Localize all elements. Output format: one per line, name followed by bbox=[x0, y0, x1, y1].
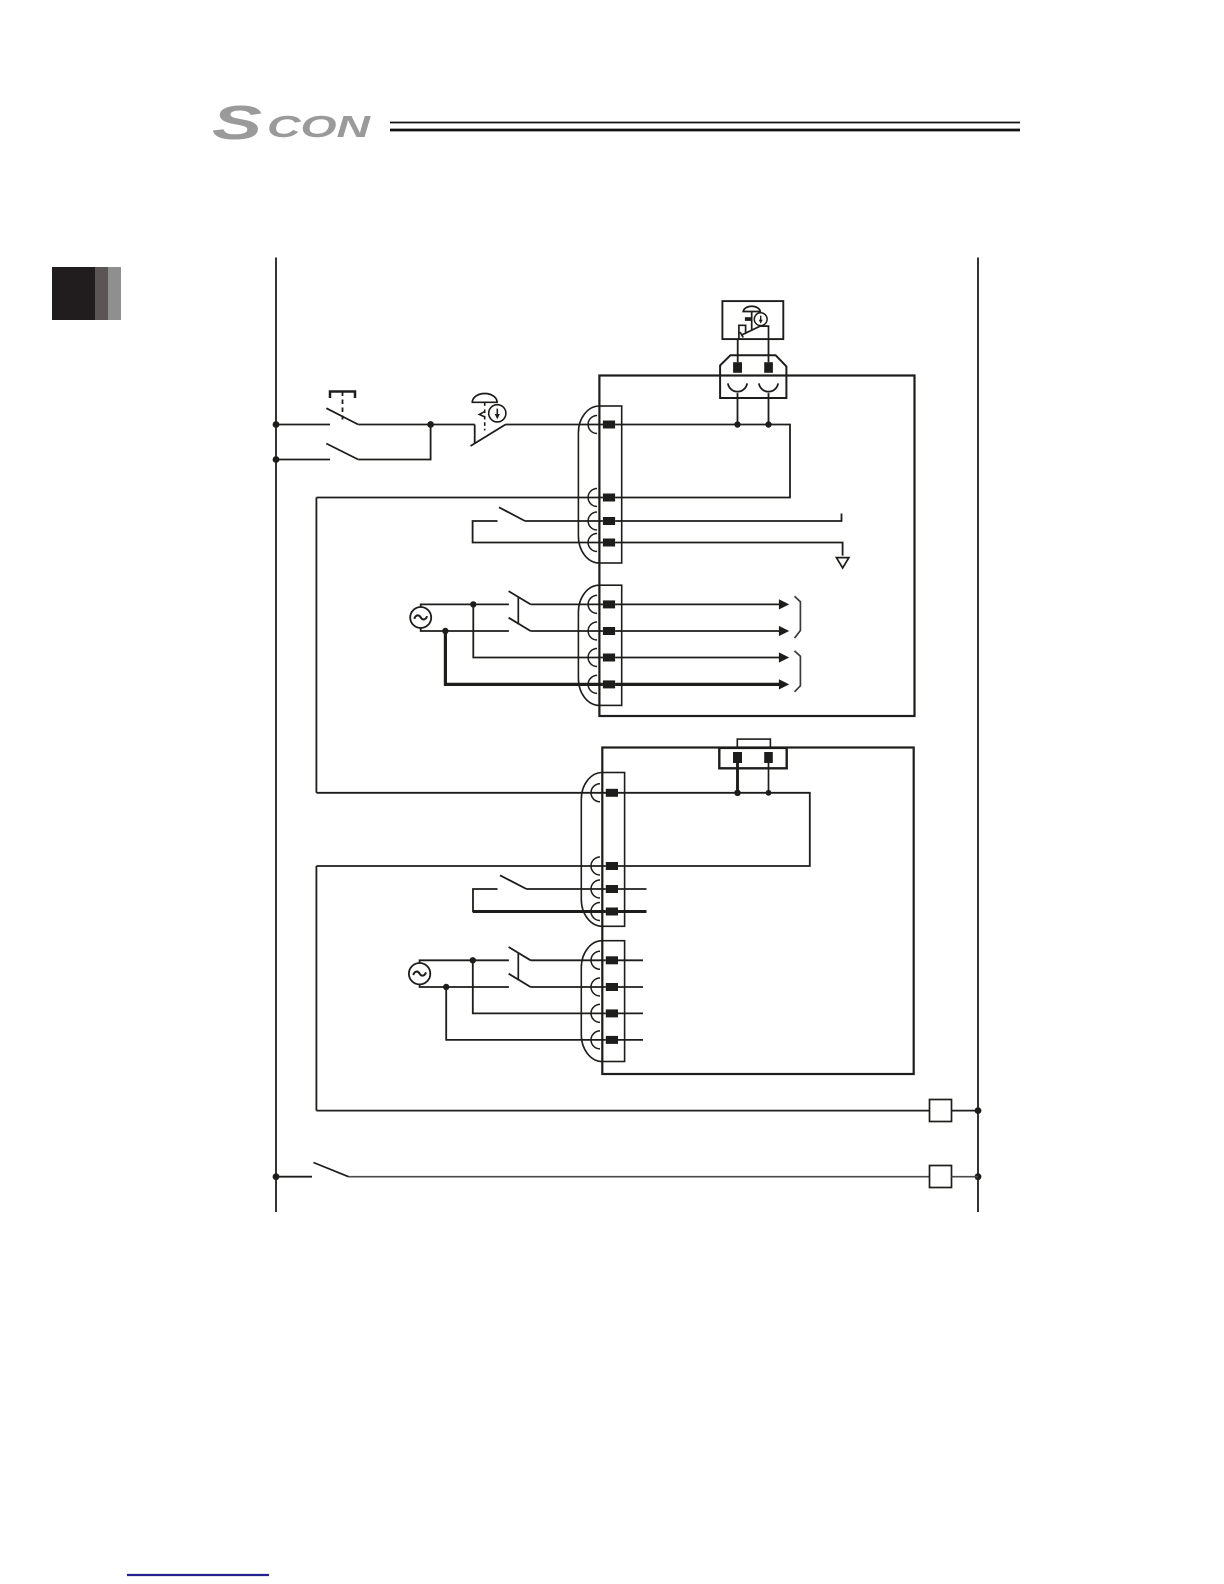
wire switch2 pole1 to J4 pin1 bbox=[531, 959, 606, 961]
connector J1 pin2 bbox=[603, 494, 615, 502]
wire bottom switch to relay coil 2 bbox=[349, 1176, 930, 1178]
svg-text:S: S bbox=[212, 97, 262, 150]
EMG jumper plug loop bbox=[737, 739, 770, 748]
wire J3 pin3 stub bbox=[618, 888, 647, 890]
motor cutoff switch 2 blade bbox=[500, 875, 527, 889]
wire J4 pin4 stub bbox=[618, 1039, 643, 1041]
connector J1 notch pin4 bbox=[588, 534, 597, 552]
supply rail left bbox=[275, 258, 277, 1213]
motor cutoff switch blade bbox=[499, 507, 525, 521]
brake release contact blade bbox=[471, 425, 506, 447]
wire J2 pin3 to encoder arrow bbox=[615, 657, 779, 659]
brake icon right terminal bbox=[760, 326, 768, 339]
wire relay coil 1 to right rail bbox=[952, 1110, 979, 1112]
EMG contact 1 blade bbox=[326, 408, 358, 424]
connector J2 pin2 bbox=[603, 627, 615, 635]
wire AC2 L branch to J4 pin3 bbox=[473, 960, 606, 1013]
EMG connector pin right bbox=[764, 752, 773, 763]
wire brake release switch to connector J1 pin1 bbox=[506, 424, 604, 426]
wire switch pole2 to J2 pin2 bbox=[531, 630, 603, 632]
wire AC2 N to switch bbox=[420, 984, 509, 987]
svg-text:CON: CON bbox=[267, 109, 371, 144]
wire J2 pin2 to motor arrow bbox=[615, 630, 779, 632]
junction EMG left bbox=[734, 790, 741, 797]
wire EMG pin left down bold bbox=[736, 763, 739, 793]
chapter tab black bbox=[52, 267, 95, 320]
power switch pole2 blade bbox=[509, 618, 531, 631]
brake release switch button dome bbox=[472, 394, 497, 403]
brace motor pair bbox=[795, 596, 801, 638]
EMG connector housing bbox=[719, 748, 786, 768]
power switch 2 pole2 blade bbox=[509, 974, 531, 987]
connector J2 notch pin2 bbox=[588, 622, 597, 640]
wire EMG contact 2 to riser bbox=[358, 425, 430, 460]
EMG connector pin left bbox=[733, 752, 742, 763]
power switch 2 pole1 blade bbox=[509, 947, 531, 960]
connector J4 notch pin3 bbox=[591, 1004, 600, 1022]
brake icon button dome bbox=[743, 306, 760, 311]
power switch pole1 blade bbox=[509, 591, 531, 604]
connector J4 pin4 bbox=[606, 1036, 618, 1044]
relay coil 2 bbox=[930, 1166, 952, 1188]
controller 2 enclosure bbox=[602, 748, 913, 1075]
wire J2 pin4 to encoder arrow bold bbox=[615, 683, 779, 686]
connector J1 notch pin1 bbox=[588, 416, 597, 434]
footer rule blue bbox=[127, 1574, 269, 1576]
wire cutoff blade to J1 pin3 bbox=[525, 520, 603, 522]
AC source 1 circle bbox=[410, 607, 431, 628]
connector J4 pin1 bbox=[606, 956, 618, 964]
brake plug socket cup left bbox=[728, 383, 747, 391]
junction left rail bottom bbox=[273, 1173, 280, 1180]
EMG contact 2 blade bbox=[326, 444, 358, 460]
arrow encoder B bbox=[779, 679, 789, 689]
wire AC1 L branch to J2 pin3 bbox=[473, 604, 603, 657]
wire brake box to plug pin right bbox=[768, 339, 770, 362]
wire switch2 pole2 to J4 pin2 bbox=[531, 986, 606, 988]
controller 1 enclosure bbox=[599, 376, 914, 717]
connector J4 shell bbox=[581, 941, 602, 1062]
emergency stop actuator dashed link bbox=[342, 392, 344, 420]
brake release contact stub bbox=[474, 425, 476, 445]
connector J1 pin1 bbox=[603, 421, 615, 429]
junction AC1 N branch bbox=[442, 628, 448, 634]
arrow motor U bbox=[779, 599, 789, 609]
wire J3 pin4 stub bold bbox=[618, 910, 647, 913]
brake release switch dashed stem bbox=[484, 402, 486, 430]
wire J1 pin4 to ground bbox=[615, 543, 843, 556]
arrow encoder A bbox=[779, 652, 789, 662]
brake icon black pad bbox=[745, 317, 751, 321]
connector J1 shell bbox=[578, 406, 599, 563]
wire J4 pin1 stub bbox=[618, 959, 643, 961]
connector J3 pin2 bbox=[606, 862, 618, 870]
wire AC2 L to switch bbox=[420, 960, 509, 963]
wire cutoff 2 blade to J3 pin3 bbox=[527, 888, 606, 890]
wire bypass to relay coil 1 bbox=[316, 1110, 929, 1112]
arrow motor V bbox=[779, 626, 789, 636]
wire bypass to J3 pin1 and loop to pin2 bbox=[316, 793, 809, 866]
wire AC1 N to switch bbox=[421, 628, 509, 631]
connector J4 pin2 bbox=[606, 983, 618, 991]
connector J3 pin4 bbox=[606, 908, 618, 916]
wire J1 pin3 open terminal bbox=[615, 514, 841, 522]
wire EMG pin right down bbox=[768, 763, 770, 793]
frame ground symbol bbox=[836, 558, 849, 568]
wire plug right to EMG wire bbox=[768, 393, 770, 424]
connector J1 notch pin3 bbox=[588, 512, 597, 530]
connector J2 pin3 bbox=[603, 654, 615, 662]
wire J1 pin2 to left bypass bbox=[316, 497, 603, 499]
brake icon blade tick bbox=[740, 332, 743, 338]
wire J3 pin4 left bold bbox=[473, 910, 606, 913]
connector J4 notch pin4 bbox=[591, 1031, 600, 1049]
connector J3 notch pin3 bbox=[591, 880, 600, 898]
connector J2 notch pin1 bbox=[588, 595, 597, 613]
motor brake unit box bbox=[722, 301, 783, 339]
junction left rail upper bbox=[273, 421, 280, 428]
junction AC2 N branch bbox=[443, 984, 449, 990]
wire switch pole1 to J2 pin1 bbox=[531, 603, 603, 605]
connector J1 notch pin2 bbox=[588, 489, 597, 507]
connector J3 shell bbox=[581, 773, 602, 927]
wire AC1 N branch to J2 pin4 bold bbox=[445, 631, 603, 684]
brake plug socket cup right bbox=[759, 383, 778, 391]
wire AC1 L to switch bbox=[421, 604, 509, 607]
connector J1 pin3 bbox=[603, 517, 615, 525]
brake release switch chevron bbox=[479, 412, 484, 417]
connector J3 notch pin2 bbox=[591, 857, 600, 875]
chapter tab light gray bbox=[108, 267, 121, 320]
power switch 2 link bar bbox=[517, 953, 519, 980]
connector J2 pin1 bbox=[603, 600, 615, 608]
brake release timer circle bbox=[489, 405, 506, 422]
AC source 2 tilde bbox=[413, 972, 426, 976]
brace encoder pair bbox=[795, 651, 801, 692]
connector J2 notch pin4 bbox=[588, 675, 597, 693]
wire rail to EMG contact 1 bbox=[276, 424, 330, 426]
header rule thick bbox=[390, 129, 1020, 132]
bottom switch blade bbox=[314, 1163, 349, 1177]
junction node A bbox=[427, 421, 434, 428]
connector J4 notch pin2 bbox=[591, 978, 600, 996]
motor cutoff switch loop bbox=[473, 521, 603, 543]
junction plug right bbox=[765, 421, 771, 427]
junction left rail lower bbox=[273, 456, 280, 463]
AC source 1 tilde bbox=[414, 615, 427, 619]
brake icon contact blade bbox=[741, 326, 760, 335]
junction EMG right bbox=[766, 790, 772, 796]
motor cutoff switch 2 loop bbox=[473, 889, 606, 912]
brake icon stem bbox=[751, 312, 753, 330]
junction AC2 L branch bbox=[470, 957, 476, 963]
junction right rail relay2 bbox=[975, 1173, 982, 1180]
wire J4 pin3 stub bbox=[618, 1012, 643, 1014]
connector J2 notch pin3 bbox=[588, 649, 597, 667]
left bypass riser lower bbox=[315, 866, 317, 1111]
junction AC1 L branch bbox=[470, 601, 476, 607]
emergency stop actuator T-bar bbox=[330, 392, 355, 399]
connector J4 notch pin1 bbox=[591, 951, 600, 969]
brake plug pin left bbox=[733, 362, 742, 373]
header rule thin bbox=[390, 122, 1020, 124]
brake icon timer circle bbox=[754, 313, 767, 326]
wire node A to brake release switch bbox=[431, 424, 475, 426]
connector J2 pin4 bbox=[603, 680, 615, 688]
junction plug left bbox=[734, 421, 740, 427]
chapter tab dark gray bbox=[95, 267, 108, 320]
wire J3 pin2 to left bypass bbox=[316, 865, 605, 867]
wire rail to EMG contact 2 bbox=[276, 459, 330, 461]
brake release timer down arrow bbox=[496, 409, 498, 415]
wire J4 pin2 stub bbox=[618, 986, 643, 988]
wire brake box to plug pin left bbox=[737, 339, 739, 362]
wire J2 pin1 to motor arrow bbox=[615, 603, 779, 605]
wire relay coil 2 to right rail bbox=[952, 1176, 979, 1178]
wire plug left to EMG wire bbox=[737, 393, 739, 424]
relay coil 1 bbox=[930, 1100, 952, 1122]
wire EMG contact 1 to node A bbox=[358, 424, 430, 426]
wire AC2 N branch to J4 pin4 bbox=[446, 987, 606, 1040]
power switch link bar bbox=[517, 598, 519, 625]
brake icon timer arrow bbox=[760, 316, 762, 321]
wire left rail to bottom switch bbox=[276, 1176, 312, 1178]
brake plug pin right bbox=[764, 362, 773, 373]
brake plug shell bbox=[720, 355, 786, 398]
supply rail right bbox=[977, 258, 979, 1213]
connector J3 pin3 bbox=[606, 885, 618, 893]
connector J4 pin3 bbox=[606, 1009, 618, 1017]
connector J3 notch pin4 bbox=[591, 903, 600, 921]
AC source 2 circle bbox=[409, 963, 430, 984]
left bypass riser upper bbox=[315, 498, 317, 793]
wire J1 pin1 loop to pin2 bbox=[615, 425, 790, 498]
junction right rail relay1 bbox=[975, 1107, 982, 1114]
connector J2 shell bbox=[578, 585, 599, 705]
connector J3 notch pin1 bbox=[591, 784, 600, 802]
connector J1 pin4 bbox=[603, 539, 615, 547]
brake icon left terminal bbox=[739, 325, 746, 339]
connector J3 pin1 bbox=[606, 789, 618, 797]
